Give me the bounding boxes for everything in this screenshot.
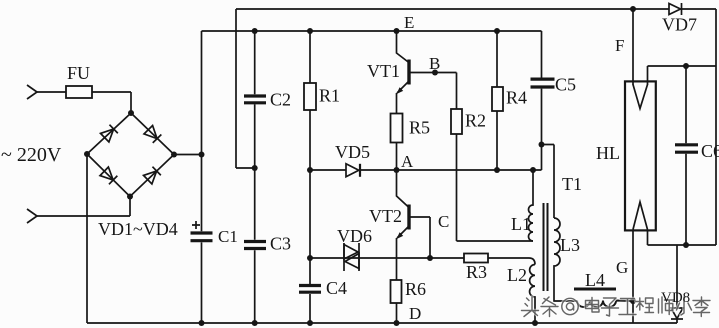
resistor R3 (464, 254, 488, 263)
wire: lamp top-right pin (648, 66, 717, 85)
wire: lamp bottom-left pin (node G) (632, 230, 634, 302)
svg-text:VD7: VD7 (662, 15, 697, 35)
svg-text:F: F (615, 36, 624, 55)
svg-text:C5: C5 (555, 75, 576, 95)
svg-text:VD8: VD8 (661, 290, 690, 306)
junction: F pin on top rail (630, 6, 636, 12)
resistor R5 (391, 114, 403, 143)
inductor L3 (554, 218, 577, 301)
wire: node C through R3 to L2 (430, 258, 535, 265)
inductor L2 (530, 265, 535, 324)
lamp filament bottom (633, 202, 648, 230)
svg-text:T1: T1 (562, 174, 582, 194)
svg-text:VD1~VD4: VD1~VD4 (98, 219, 178, 239)
svg-text:C3: C3 (270, 234, 291, 254)
junction: L2 bottom rail (532, 320, 538, 326)
junction: bridge top node (128, 110, 134, 116)
junction: C2/C3 midpoint (252, 165, 258, 171)
junction: VT1 collector on +rail (node E) (394, 28, 400, 34)
diode VD1 (bridge upper-left) (101, 125, 118, 142)
transistor VT1 (397, 31, 410, 63)
fuse FU (66, 86, 92, 98)
input terminal top (27, 85, 37, 99)
wire: top rail link down to C2/C3 midpoint (236, 9, 255, 168)
transistor VT2 (397, 170, 410, 208)
junction: VD6 left (307, 255, 313, 261)
svg-text:VT2: VT2 (369, 206, 402, 226)
svg-text:R2: R2 (465, 111, 486, 131)
svg-text:E: E (404, 13, 414, 32)
label C1 plus sign (192, 221, 200, 229)
junction: bridge bottom node (127, 194, 133, 200)
inductor L4 (577, 301, 633, 308)
diode VD3 (bridge lower-left) (100, 167, 117, 184)
node A junction (394, 167, 400, 173)
wire: top rail y=9 (236, 8, 716, 10)
svg-text:R1: R1 (319, 86, 340, 106)
svg-text:C4: C4 (326, 278, 347, 298)
junction: C6 bottom (683, 242, 689, 248)
inductor L1 (529, 170, 534, 241)
junction: C3 bottom rail (252, 320, 258, 326)
junction: bridge left node (84, 151, 90, 157)
wire: lamp bottom-right pin (648, 230, 717, 246)
svg-text:FU: FU (67, 63, 90, 83)
wire: VD5 branch y=170 (310, 169, 397, 171)
lamp filament top (633, 85, 648, 109)
svg-text:C2: C2 (270, 90, 291, 110)
wire: AC input bottom to bridge (37, 197, 130, 217)
wire: +DC riser x=201.5 (201, 31, 203, 323)
junction: L4 / lamp pin G (630, 298, 636, 304)
wire: R4 line x=497 (496, 31, 498, 170)
resistor R2 (451, 109, 462, 134)
svg-text:L3: L3 (560, 235, 580, 255)
svg-text:L2: L2 (507, 265, 527, 285)
capacitor C6 (685, 66, 687, 245)
diode VD2 (bridge upper-right) (144, 126, 161, 143)
wire: R5 bottom to node A (396, 143, 398, 171)
junction: bridge right node (171, 152, 177, 158)
wire: R6 bottom to rail (node D) (396, 303, 398, 323)
junction: R1 top on +rail (307, 28, 313, 34)
wire: node B down through R2 to L1 bottom (457, 73, 534, 242)
junction: L1 tap on A wire (530, 167, 536, 173)
lamp HL tube (625, 81, 656, 230)
svg-text:VD5: VD5 (335, 142, 370, 162)
wire: right riser x=716 (715, 9, 717, 245)
svg-text:G: G (616, 258, 628, 277)
inductor L4 core bar (574, 288, 616, 291)
resistor R1 (304, 83, 316, 110)
svg-text:L4: L4 (585, 270, 605, 290)
junction: R4 bottom on A wire (494, 167, 500, 173)
svg-text:VT1: VT1 (367, 61, 400, 81)
wire: bottom rail (87, 322, 677, 324)
wire: lamp top-left pin to top rail (632, 9, 634, 85)
svg-text:R4: R4 (506, 88, 527, 108)
transformer T1 core (544, 203, 548, 291)
node C junction (427, 255, 433, 261)
wire: bridge left node down to bottom rail (86, 154, 88, 323)
junction: C4 bottom rail (307, 320, 313, 326)
junction: C2 top on +rail (252, 28, 258, 34)
node D junction (394, 320, 400, 326)
capacitor C2 (244, 96, 266, 103)
junction: C5 bottom / L3 branch (539, 142, 545, 148)
junction: C6 top (683, 63, 689, 69)
resistor R6 (391, 280, 402, 303)
wire: bridge diamond (87, 113, 174, 197)
wire: VD6 branch y=258 (310, 257, 430, 259)
svg-text:B: B (429, 54, 440, 73)
svg-text:C6: C6 (701, 141, 719, 161)
diode VD5 (346, 164, 359, 177)
capacitor C1 (electrolytic) (191, 233, 213, 241)
svg-text:A: A (401, 152, 414, 171)
diode VD4 (bridge lower-right) (144, 167, 161, 184)
junction: R4 top on +rail (494, 28, 500, 34)
diode VD8 (676, 245, 678, 323)
svg-text:R6: R6 (405, 279, 426, 299)
svg-text:R3: R3 (466, 262, 487, 282)
svg-text:R5: R5 (409, 118, 430, 138)
wire: R1/VD6/C4 line x=310 (309, 31, 311, 323)
svg-text:D: D (409, 304, 421, 323)
input terminal bottom (27, 209, 37, 223)
junction: R1 bottom / VD5 anode (307, 167, 313, 173)
capacitor C3 (244, 242, 266, 249)
diac VD6 (344, 243, 359, 271)
wire: C2/C3 line x=254.7 (254, 31, 256, 323)
svg-text:~ 220V: ~ 220V (1, 144, 62, 166)
junction: C1 top (199, 152, 205, 158)
capacitor C4 (299, 286, 321, 293)
capacitor C5 (541, 31, 543, 170)
svg-text:VD6: VD6 (337, 226, 372, 246)
node B junction (432, 70, 438, 76)
wire: branch to L3 top (542, 145, 555, 219)
svg-text:C: C (438, 212, 449, 231)
junction: C1 bottom rail (199, 320, 205, 326)
svg-text:HL: HL (596, 143, 620, 163)
wire: G junction down to rail (632, 301, 634, 323)
diode VD7 (669, 4, 681, 15)
wire: AC input top to bridge (37, 92, 131, 113)
resistor R4 (492, 87, 503, 111)
wire: bridge right node to C1 line (174, 154, 202, 156)
wire: +rail y=31 (202, 30, 542, 32)
svg-text:C1: C1 (218, 227, 238, 246)
svg-text:L1: L1 (511, 214, 531, 234)
wire: node A to C5 riser (397, 169, 542, 171)
